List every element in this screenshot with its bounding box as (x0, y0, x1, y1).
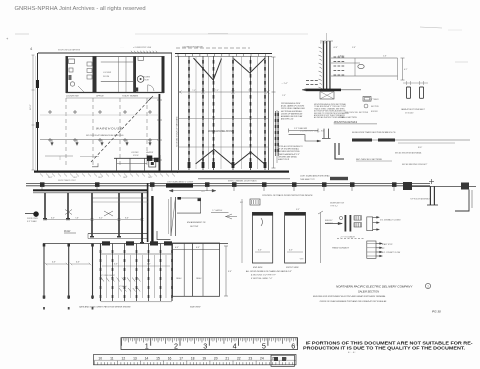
svg-text:1: 1 (145, 341, 149, 350)
room 2 (locker) shelves (101, 61, 133, 63)
flange heavy bar (306, 89, 341, 92)
svg-text:GNRHS-NPRHA Joint Archives - a: GNRHS-NPRHA Joint Archives - all rights … (15, 6, 146, 12)
bay dims (46, 263, 67, 265)
svg-text:1″ BOLT: 1″ BOLT (338, 56, 345, 58)
svg-text:BE OF STD MFG INSTALL: BE OF STD MFG INSTALL (278, 148, 299, 151)
svg-text:MOUNTING DETAILS: MOUNTING DETAILS (334, 121, 358, 124)
conduit feed line (325, 223, 342, 225)
svg-text:WAREHOUSE DOOR: WAREHOUSE DOOR (208, 129, 234, 133)
gate right dim line (319, 212, 321, 263)
beam horizontals (331, 57, 398, 59)
svg-text:TYPE K-2: TYPE K-2 (330, 206, 338, 208)
svg-text:SEE-THRU SILL SECTIONS: SEE-THRU SILL SECTIONS (345, 112, 369, 114)
svg-text:PANEL: PANEL (176, 277, 182, 280)
svg-text:10′-0″: 10′-0″ (73, 177, 78, 179)
svg-text:TOP ROLLER ASSEMBLY: TOP ROLLER ASSEMBLY (410, 198, 431, 201)
svg-text:4: 4 (233, 341, 237, 350)
svg-text:PROVIDE ANGLE IRON: PROVIDE ANGLE IRON (281, 102, 301, 105)
svg-text:4′-6″: 4′-6″ (52, 261, 56, 264)
heater room at plan bottom right (114, 157, 160, 159)
svg-text:ROOF LINE 2x6 RAFTERS: ROOF LINE 2x6 RAFTERS (58, 49, 81, 52)
svg-text:THIS SHEET TYP.: THIS SHEET TYP. (300, 179, 315, 181)
pocket L-step (157, 231, 170, 240)
svg-text:DOORS OF WAREHOUSE: DOORS OF WAREHOUSE (281, 112, 303, 115)
svg-text:6: 6 (291, 341, 295, 350)
slat hatch rows (101, 278, 104, 282)
svg-text:3′-0″: 3′-0″ (296, 209, 300, 211)
svg-text:SEC AT MEETING STILES 4′0″: SEC AT MEETING STILES 4′0″ (402, 163, 428, 166)
door bottom blobs (188, 162, 191, 168)
svg-text:7′-0″: 7′-0″ (192, 90, 196, 92)
faint scan marks (15, 33, 29, 35)
svg-text:B VERTICAL: PANEL 7′-6″: B VERTICAL: PANEL 7′-6″ (251, 277, 273, 280)
mid partial lines (45, 155, 73, 157)
svg-text:NORTHERN PACIFIC ELECTRIC DELI: NORTHERN PACIFIC ELECTRIC DELIVERY COMPA… (336, 285, 413, 289)
panel views right (173, 243, 220, 296)
cm ruler (94, 355, 297, 365)
office/toilet rooms band (66, 56, 69, 93)
svg-text:7′-0″: 7′-0″ (215, 90, 219, 92)
door mid mullions (195, 57, 197, 169)
svg-text:⅝″ STEEL SHEET: ⅝″ STEEL SHEET (101, 275, 116, 277)
plan lower band (88, 233, 148, 235)
svg-text:4″ TRACK: 4″ TRACK (371, 98, 380, 101)
floor plan outer walls (38, 52, 172, 54)
svg-text:LOCKER RM: LOCKER RM (66, 96, 79, 98)
svg-text:10′-0″: 10′-0″ (123, 177, 128, 179)
svg-text:NOTE: ALL DOOR GUIDES TO: NOTE: ALL DOOR GUIDES TO (278, 145, 303, 148)
svg-text:AND SPEC 2x4: AND SPEC 2x4 (280, 118, 293, 121)
small legend boxes (363, 97, 371, 102)
jamb dashed stile pair right of door (275, 111, 277, 156)
svg-text:PG 30: PG 30 (432, 310, 441, 314)
svg-text:4′-6″: 4′-6″ (147, 263, 151, 266)
small bracket right (323, 129, 325, 139)
svg-text:SEC AT MOUNTING ASTRAGAL: SEC AT MOUNTING ASTRAGAL (395, 152, 422, 155)
counter plan posts (44, 193, 46, 218)
sill plank dark bars (352, 139, 372, 142)
svg-text:SALEM SECTION: SALEM SECTION (358, 290, 379, 294)
svg-text:CONTROL OF TRACK DOOR PROTECTI: CONTROL OF TRACK DOOR PROTECTION DEVICE (262, 194, 313, 197)
svg-text:. . . .: . . . . (120, 47, 124, 49)
svg-text:SECTION AS SHOWN ALL: SECTION AS SHOWN ALL (281, 110, 302, 113)
svg-text:2: 2 (174, 341, 178, 350)
svg-text:NO DETAIL SHOWN OF HARDWARE: NO DETAIL SHOWN OF HARDWARE (176, 116, 179, 147)
room 1 (mens toilet) fixtures (69, 59, 75, 64)
pocket channel with diagonals (170, 197, 172, 236)
top rail ticks (177, 54, 179, 57)
channel hatch flecks (319, 47, 322, 49)
svg-text:LOCKER: LOCKER (103, 72, 112, 74)
svg-text:7′-0″: 7′-0″ (248, 90, 252, 92)
svg-text:OFFICE: OFFICE (96, 96, 104, 98)
svg-text:3: 3 (203, 341, 207, 350)
gate end view rect (252, 212, 272, 263)
left bays posts (43, 244, 45, 300)
svg-text:SLIDE DOOR TRACK SECTION DETA: SLIDE DOOR TRACK SECTION DETAILS N.T.S. (352, 131, 396, 134)
svg-text:8′-2″: 8′-2″ (99, 217, 103, 219)
svg-text:MOMENTARY SW: MOMENTARY SW (330, 202, 344, 205)
pocket heavy verticals (141, 193, 143, 242)
counter plan heavy top lines (33, 189, 148, 191)
floor plan bottom heavy wall (34, 171, 178, 173)
svg-text:GUTTER: GUTTER (190, 226, 199, 228)
svg-text:CENTERS SEE DETAIL: CENTERS SEE DETAIL (278, 155, 297, 158)
svg-text:PLAN: PLAN (64, 230, 71, 233)
svg-text:A SECTIONS: 2″x2″ PIPE TYP: A SECTIONS: 2″x2″ PIPE TYP (250, 274, 276, 277)
svg-text:2′-6″: 2′-6″ (382, 56, 387, 58)
right dim line of mounting detail (402, 58, 404, 80)
warehouse column ticks (48, 111, 52, 113)
svg-text:NO OFFICE AT WAREHOUSE BUILDIN: NO OFFICE AT WAREHOUSE BUILDING (86, 134, 124, 137)
svg-text:→ 1′-0″: → 1′-0″ (281, 83, 288, 85)
svg-text:12′-0″: 12′-0″ (201, 191, 206, 193)
channel bolt dashes left lower (306, 80, 309, 82)
heater/stove dark blobs (147, 156, 153, 162)
box below flange (320, 92, 334, 100)
channel bolt dashes right (334, 56, 337, 58)
svg-text:SECTION: SECTION (371, 106, 379, 108)
grade hatch below plan (40, 174, 43, 177)
motor boxes (345, 215, 347, 232)
svg-text:OFFICE OF CHIEF ENGINEER PORT: OFFICE OF CHIEF ENGINEER PORTLAND ORE JO… (320, 300, 387, 303)
svg-text:AT ALL JAMBS OF 3 DOORS: AT ALL JAMBS OF 3 DOORS (280, 105, 305, 108)
svg-text:8′-6″: 8′-6″ (228, 271, 232, 273)
svg-text:4′-6″: 4′-6″ (175, 246, 179, 249)
svg-text:SHEET PG 31: SHEET PG 31 (278, 159, 289, 161)
svg-text:4′-6″: 4′-6″ (196, 246, 200, 249)
svg-text:⅝″ MESH: ⅝″ MESH (119, 286, 127, 288)
svg-text:ENLARGEMENT OF: ENLARGEMENT OF (187, 221, 206, 224)
track right elbow (430, 186, 431, 205)
svg-text:7′-6″: 7′-6″ (75, 217, 79, 219)
svg-text:96′-0″: 96′-0″ (30, 104, 32, 110)
svg-text:WOMEN: WOMEN (143, 76, 151, 78)
right bracket detail (403, 186, 476, 188)
door mid rails (179, 118, 268, 120)
svg-text:STEEL CHANNEL DOOR TRACK: STEEL CHANNEL DOOR TRACK (228, 180, 257, 183)
svg-text:CONT GUARD ANGLE 2″ COVER: CONT GUARD ANGLE 2″ COVER (167, 180, 194, 183)
svg-text:8′-6″: 8′-6″ (125, 217, 129, 219)
door bottom W brace (196, 149, 265, 165)
svg-text:± CLERESTORY LINE — W.B.: ± CLERESTORY LINE — W.B. (300, 131, 325, 133)
track brackets (40, 182, 45, 187)
panel views right dim (225, 246, 227, 296)
partition elevation top line (43, 243, 228, 245)
svg-text:GATE AND STEEL SHEET PARTITION: GATE AND STEEL SHEET PARTITION WHERE SHO… (79, 306, 131, 309)
svg-text:ℓ CLERESTORY ABOVE: ℓ CLERESTORY ABOVE (181, 46, 204, 49)
svg-text:10′-0″: 10′-0″ (48, 177, 53, 179)
svg-text:FRONT VIEW: FRONT VIEW (286, 267, 300, 269)
svg-text:CONT. GUARD ANGLE SEE DETAIL: CONT. GUARD ANGLE SEE DETAIL (300, 175, 330, 178)
door right dim lines (273, 57, 275, 168)
svg-text:6′-0″ CLEAR: 6′-0″ CLEAR (27, 220, 37, 223)
center faint vertical (241, 199, 243, 263)
gate front view rect (285, 212, 306, 263)
svg-text:ROOM: ROOM (103, 76, 110, 78)
svg-text:± CLERESTORY LINE: ± CLERESTORY LINE (133, 47, 152, 49)
sill left J bracket (335, 143, 344, 159)
svg-text:4′-6″: 4′-6″ (76, 261, 80, 264)
step profile line (289, 135, 320, 141)
svg-text:SIDE VIEW: SIDE VIEW (190, 307, 201, 309)
svg-text:TOILET WOMEN: TOILET WOMEN (122, 96, 139, 98)
dark label box on track (166, 184, 193, 188)
svg-text:PROV STEEL CHANNEL SEE: PROV STEEL CHANNEL SEE (281, 107, 306, 110)
slat section feet (101, 301, 173, 303)
svg-text:4′-1″: 4′-1″ (404, 68, 408, 71)
svg-text:SEC-THRU SILL SECTIONS: SEC-THRU SILL SECTIONS (356, 159, 382, 161)
slat section top hinges (102, 241, 110, 245)
hatched switch boxes (354, 216, 362, 220)
counter plan dim row (45, 219, 142, 221)
svg-text:10′-0″: 10′-0″ (98, 177, 103, 179)
terminal box upper (367, 217, 373, 231)
svg-text:START STOP: START STOP (382, 243, 393, 246)
long door track band (26, 183, 430, 185)
door top rail (175, 53, 272, 55)
middle slat section (101, 253, 173, 255)
left arrow (25, 213, 36, 215)
door swing cross (104, 211, 113, 216)
door stile hardware ticks (188, 60, 190, 64)
svg-text:W A R E H O U S E: W A R E H O U S E (96, 127, 123, 131)
svg-text:6′-6″: 6′-6″ (258, 250, 262, 252)
svg-text:N.O. CONTACT CLOSE: N.O. CONTACT CLOSE (382, 251, 401, 254)
diagonal partition (dashed) (91, 97, 152, 162)
pocket open rect (177, 198, 201, 213)
lintel hatch top wall (131, 51, 133, 53)
svg-text:TOILET: TOILET (143, 79, 150, 81)
cm ruler end box (271, 355, 294, 366)
jamb channels detail (407, 87, 411, 98)
counter sub lines (93, 197, 149, 199)
svg-text:5: 5 (262, 341, 266, 350)
svg-text:NO SCALE: NO SCALE (405, 111, 414, 114)
conduit dim dashes (337, 238, 365, 240)
warehouse dimension row (40, 139, 158, 141)
svg-text:4′-0″: 4′-0″ (289, 249, 293, 252)
svg-text:4′-6″: 4′-6″ (114, 263, 118, 266)
svg-text:PRODUCTION IT IS DUE TO THE QU: PRODUCTION IT IS DUE TO THE QUALITY OF T… (303, 346, 466, 352)
warehouse column dashed lines (65, 98, 67, 168)
gate switch symbol (250, 199, 260, 205)
mounting detail: channel column (323, 41, 324, 91)
svg-text:2′-6″: 2′-6″ (351, 47, 356, 49)
terminal box lower (367, 241, 376, 258)
svg-text:PLAN & SECTION: PLAN & SECTION (339, 116, 357, 119)
svg-text:HEATER: HEATER (146, 151, 154, 154)
warehouse door elevation: clerestory dashed line (176, 47, 250, 49)
door dimension row (180, 91, 268, 93)
svg-text:DOOR TRACK CONT.: DOOR TRACK CONT. (58, 179, 76, 182)
svg-text:SW: SW (240, 202, 243, 204)
floor plan: left dimension line (32, 55, 34, 170)
left bracket mark (92, 163, 98, 167)
mid dim row of slat section (102, 265, 170, 267)
svg-text:JAMB AT SECTIONS MEET: JAMB AT SECTIONS MEET (401, 108, 426, 111)
svg-text:DOOR OPNG: DOOR OPNG (27, 218, 38, 220)
pocket dim arrow (169, 190, 216, 192)
svg-text:TRACK HANGERS AT 2′-0″: TRACK HANGERS AT 2′-0″ (278, 153, 300, 156)
svg-text:6′-0″: 6′-0″ (51, 217, 55, 219)
plan right heavy wall (159, 94, 161, 171)
dim line right of door (289, 130, 318, 132)
svg-text:BOLTED: BOLTED (371, 111, 378, 113)
svg-text:RIGID CONDUIT: RIGID CONDUIT (332, 248, 349, 250)
svg-text:ℓ 2′-6″: ℓ 2′-6″ (332, 46, 338, 49)
room 3 (women toilet) fixtures (137, 76, 144, 83)
svg-text:10′-0″: 10′-0″ (148, 177, 153, 179)
svg-text:N.O. NORMALLY CLOSED: N.O. NORMALLY CLOSED (380, 219, 401, 222)
door top chevron braces (194, 58, 222, 80)
svg-text:ALL DOOR DETAILS OF CHAIN LINK: ALL DOOR DETAILS OF CHAIN LINK GATES 6′-… (245, 270, 292, 273)
svg-text:ASSEMBLY AS PER PLAN: ASSEMBLY AS PER PLAN (280, 115, 303, 118)
door stiles (178, 56, 180, 170)
svg-text:BUILDING FOR NORTHWEST ELECTRI: BUILDING FOR NORTHWEST ELECTRIC AND GREA… (313, 295, 386, 298)
door bottom heavy sill (177, 171, 289, 173)
title revision circle (425, 283, 430, 288)
svg-text:ROOM: ROOM (133, 155, 139, 157)
svg-text:END SIDE: END SIDE (253, 267, 263, 269)
svg-text:1′-0″: 1′-0″ (282, 95, 286, 97)
svg-text:PANEL: PANEL (196, 277, 202, 280)
inch ruler (121, 338, 298, 350)
corridor line below rooms (66, 97, 160, 99)
